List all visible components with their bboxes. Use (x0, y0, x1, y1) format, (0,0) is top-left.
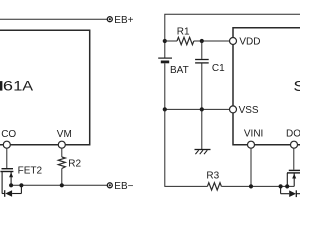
svg-text:FET2: FET2 (18, 166, 43, 177)
svg-text:R2: R2 (68, 159, 81, 170)
wire EB+ rail (left figure) (0, 18, 107, 20)
node junction R1 to C1 (200, 39, 204, 43)
wire EB- rail (left figure) (11, 184, 107, 186)
value label R2 (68, 159, 81, 170)
value label FET2 (18, 166, 43, 177)
value label S (partial IC part number) (293, 78, 305, 95)
diode D1 body diode of FET1 (281, 186, 300, 197)
capacitor C1 (195, 41, 209, 109)
resistor R3 (207, 183, 294, 190)
value label R1 (177, 26, 190, 37)
pin CO (1, 129, 16, 148)
transistor Q1 (right FET) (287, 170, 300, 186)
node junction diode tap (279, 184, 283, 188)
svg-text:1: 1 (13, 79, 22, 94)
svg-text:VM: VM (57, 129, 72, 140)
svg-text:VSS: VSS (239, 105, 259, 116)
value label C1 (212, 63, 225, 74)
node junction FET1 left leg (285, 184, 289, 188)
wire CO to FET2 gate (6, 148, 8, 168)
wire battery negative rail (165, 108, 230, 110)
svg-text:EB+: EB+ (114, 15, 133, 26)
svg-text:VINI: VINI (244, 128, 263, 139)
pin DO (286, 128, 301, 148)
wire C1 node to ground symbol (201, 109, 203, 149)
pin VM (57, 129, 72, 148)
pin VDD (230, 37, 261, 48)
wire VINI to R3 rail (250, 148, 252, 186)
node junction battery negative (163, 107, 167, 111)
node junction VINI to R3 rail (249, 184, 253, 188)
svg-text:BAT: BAT (170, 65, 189, 76)
node junction FET2 source (9, 183, 13, 187)
wire battery negative to R3 (165, 109, 208, 186)
svg-text:R1: R1 (177, 26, 190, 37)
svg-text:R3: R3 (206, 171, 219, 182)
svg-text:6: 6 (3, 79, 13, 94)
node junction R2 to EB- rail (60, 183, 64, 187)
node junction C1 to ground (200, 107, 204, 111)
diode D2 body diode of FET2 (2, 185, 21, 197)
IC box U2 (right, cut off at right edge) (233, 28, 300, 145)
wire battery positive rail (right figure) (165, 14, 300, 57)
node junction diode return (19, 183, 23, 187)
pin VINI (244, 128, 263, 148)
battery BAT (158, 58, 172, 109)
ground (195, 150, 211, 155)
svg-text:EB−: EB− (114, 181, 133, 192)
terminal EB- (107, 183, 112, 188)
IC U1 box (left protection IC, cut off at left edge) (0, 30, 90, 145)
svg-text:C1: C1 (212, 63, 225, 74)
value label 161A (partial IC part number) (0, 79, 33, 94)
value label BAT (170, 65, 189, 76)
svg-text:CO: CO (1, 129, 16, 140)
svg-text:VDD: VDD (239, 37, 260, 48)
node label EB- (114, 181, 133, 192)
node junction battery positive to R1 (163, 39, 167, 43)
wire DO to FET1 gate (293, 148, 295, 170)
node label EB+ (114, 15, 133, 26)
terminal EB+ (107, 17, 112, 22)
svg-text:A: A (22, 80, 33, 94)
resistor R2 (58, 148, 65, 185)
pin VSS (230, 105, 259, 116)
transistor FET2 (0, 169, 13, 194)
svg-text:S: S (293, 78, 300, 95)
resistor R1 (165, 37, 230, 44)
svg-text:DO: DO (286, 128, 300, 139)
value label R3 (206, 171, 219, 182)
